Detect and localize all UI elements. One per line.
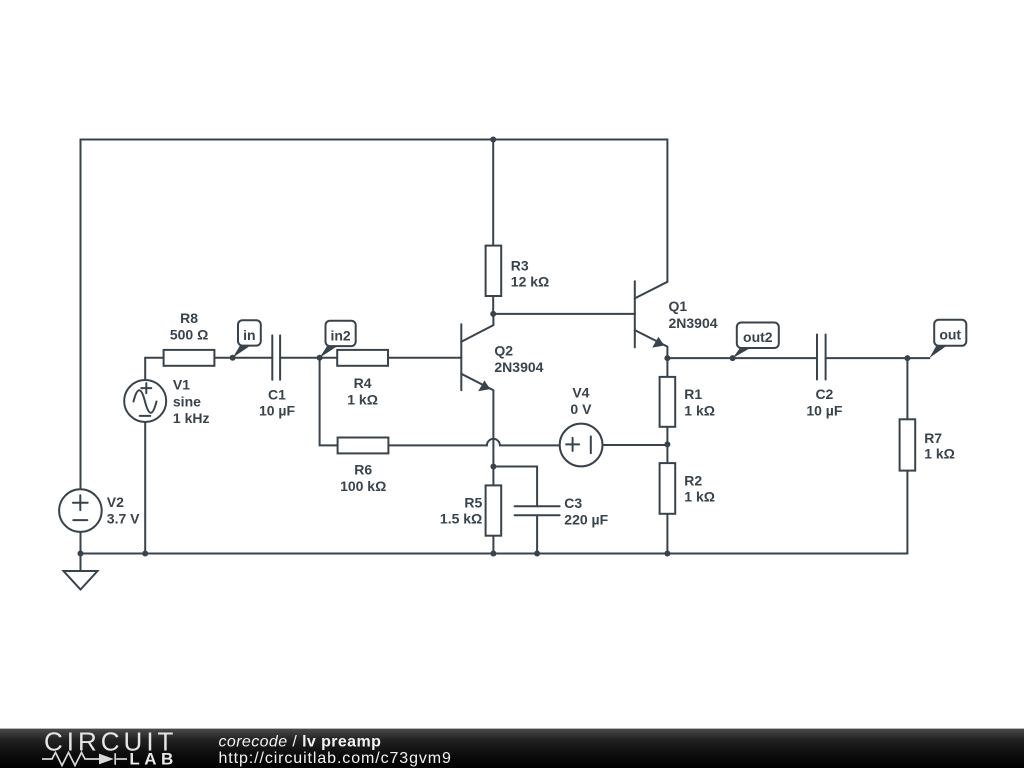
svg-text:Q1: Q1	[669, 298, 688, 314]
svg-text:R7: R7	[924, 430, 942, 446]
svg-text:out: out	[939, 327, 961, 343]
svg-text:1 kΩ: 1 kΩ	[684, 403, 715, 419]
svg-text:out2: out2	[743, 329, 773, 345]
svg-text:sine: sine	[173, 393, 201, 409]
svg-text:R1: R1	[684, 386, 702, 402]
svg-text:Q2: Q2	[494, 343, 513, 359]
svg-text:0 V: 0 V	[570, 401, 592, 417]
svg-text:2N3904: 2N3904	[669, 315, 718, 331]
svg-text:corecode / lv preamp: corecode / lv preamp	[219, 733, 382, 750]
svg-text:R3: R3	[511, 257, 529, 273]
svg-text:R6: R6	[354, 461, 372, 477]
svg-text:R4: R4	[354, 375, 372, 391]
svg-text:in2: in2	[330, 328, 350, 344]
svg-text:1 kΩ: 1 kΩ	[684, 489, 715, 505]
svg-text:220 µF: 220 µF	[564, 511, 608, 527]
svg-text:R8: R8	[180, 310, 198, 326]
svg-text:R5: R5	[464, 494, 482, 510]
svg-text:1 kΩ: 1 kΩ	[347, 391, 378, 407]
svg-text:1 kΩ: 1 kΩ	[924, 445, 955, 461]
svg-text:C3: C3	[564, 495, 582, 511]
svg-text:1.5 kΩ: 1.5 kΩ	[440, 511, 482, 527]
svg-text:12 kΩ: 12 kΩ	[511, 274, 549, 290]
svg-text:C1: C1	[268, 386, 286, 402]
svg-text:in: in	[243, 327, 255, 343]
svg-text:10 µF: 10 µF	[259, 403, 296, 419]
svg-text:3.7 V: 3.7 V	[107, 510, 140, 526]
svg-text:10 µF: 10 µF	[806, 403, 843, 419]
svg-text:V2: V2	[107, 494, 124, 510]
svg-text:V4: V4	[572, 384, 589, 400]
svg-text:R2: R2	[684, 472, 702, 488]
svg-text:V1: V1	[173, 377, 190, 393]
svg-text:100 kΩ: 100 kΩ	[340, 478, 386, 494]
svg-text:C2: C2	[815, 386, 833, 402]
svg-text:2N3904: 2N3904	[494, 359, 543, 375]
svg-text:1 kHz: 1 kHz	[173, 410, 210, 426]
svg-text:http://circuitlab.com/c73gvm9: http://circuitlab.com/c73gvm9	[219, 750, 452, 767]
svg-text:500 Ω: 500 Ω	[170, 326, 208, 342]
svg-text:LAB: LAB	[129, 749, 177, 768]
